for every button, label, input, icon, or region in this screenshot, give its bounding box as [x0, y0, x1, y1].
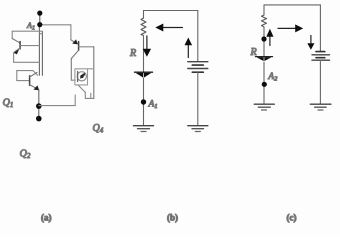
ground (b right) [188, 125, 208, 127]
wire right tall vertical [93, 47, 95, 99]
battery (b) plate short 2 [192, 71, 203, 73]
current arrow right (c top) [278, 27, 298, 29]
wire left drop b [143, 11, 145, 19]
wire bus jog [39, 33, 42, 35]
svg-text:A2: A2 [267, 72, 278, 83]
wire below diode c [263, 62, 265, 104]
svg-text:(a): (a) [41, 213, 52, 223]
wire diagonal to bus [33, 71, 38, 76]
wire left vertical mid [13, 52, 15, 62]
node dot output 2 [36, 116, 42, 122]
current arrow up (c left) head [266, 29, 273, 37]
transistor Q4 envelope circle [77, 72, 86, 81]
wire bottom horizontal [39, 105, 75, 107]
node dot top 2 A1 [37, 22, 42, 27]
current arrow up (c left) stem [269, 37, 271, 46]
current arrow down (c right) stem [310, 36, 312, 45]
diode D (c) bar [256, 56, 273, 58]
wire below battery b [197, 72, 199, 125]
wire top rail to Q3 [40, 24, 71, 26]
battery (b) plate short 1 [192, 64, 203, 66]
current arrow up (b right) stem [187, 45, 189, 58]
ground (b left) [134, 125, 154, 127]
battery (c) plate short 1 [316, 51, 325, 53]
transistor Q1 emitter diagonal [15, 48, 21, 52]
transistor Q1 emitter arrowhead [14, 49, 20, 54]
transistor Q3 collector diagonal [71, 50, 78, 58]
wire bottom riser [74, 95, 76, 106]
wire bus vertical 1 [38, 26, 40, 75]
ground (c right) [310, 103, 331, 105]
current arrow right head (c top) [295, 24, 303, 32]
svg-text:(b): (b) [167, 213, 178, 223]
transistor Q1 base lead [21, 45, 40, 47]
svg-text:(c): (c) [287, 213, 297, 223]
battery (b) plate long 1 [188, 61, 208, 63]
transistor Q3 emitter vertical [70, 25, 72, 40]
wire box top to right vertical [88, 68, 94, 70]
wire emitter hook vertical [84, 92, 86, 98]
wire top rail b [144, 10, 198, 12]
transistor Q2 base lead [17, 80, 30, 82]
transistor Q2 collector diagonal [30, 73, 37, 78]
svg-text:A1: A1 [148, 100, 158, 111]
svg-text:Q4: Q4 [93, 123, 104, 135]
resistor R (b) [141, 18, 146, 36]
svg-text:Q1: Q1 [3, 98, 14, 110]
transistor Q3 emitter arrowhead [72, 39, 78, 44]
transistor Q4 envelope box [75, 69, 88, 85]
wire bus vertical 2 [41, 32, 43, 76]
battery (c) plate long 2 [312, 59, 330, 61]
wire emitter hook tick [90, 93, 92, 98]
wire rail mid [14, 61, 40, 63]
current arrow down (c right) head [307, 43, 314, 50]
wire below battery c [319, 60, 321, 104]
transistor Q1 collector diagonal [12, 39, 20, 43]
ground (c left) [254, 103, 274, 105]
current arrow left (b top) [161, 27, 183, 29]
wire right drop b [197, 11, 199, 62]
current arrow left head (b top) [155, 24, 163, 32]
wire below diode b [143, 78, 145, 125]
transistor Q2 emitter arrowhead [33, 85, 39, 90]
wire left vertical upper [11, 31, 13, 38]
battery (b) plate long 2 [188, 68, 208, 70]
node A1 dot (b) [141, 99, 146, 104]
wire below resistor b [143, 36, 145, 73]
transistor Q1 base bar [19, 42, 21, 49]
node top dot stem wire [39, 13, 41, 25]
transistor Q2 emitter diagonal [30, 85, 38, 89]
diode D (b) center slit [143, 73, 145, 77]
diode D (b) bar [135, 71, 153, 73]
wire emitter hook bottom [85, 97, 94, 99]
transistor Q4 inner arrowhead [82, 73, 86, 76]
transistor Q3 emitter diagonal [71, 40, 76, 43]
wire left top rail [12, 30, 42, 32]
transistor Q2 base bar [29, 76, 31, 86]
transistor Q3 base lead [79, 46, 94, 48]
svg-text:R: R [129, 48, 136, 59]
wire left drop c [263, 5, 265, 15]
svg-text:Q2: Q2 [20, 149, 31, 161]
wire left vertical lower [16, 71, 18, 81]
node dot mid (c) [261, 36, 266, 41]
battery (c) plate long 1 [312, 54, 330, 56]
transistor Q4 base bar [77, 72, 79, 82]
wire right drop c [319, 5, 321, 51]
diode D (c) triangle [257, 57, 272, 61]
current arrow down (b left) stem [146, 36, 148, 50]
node dot output 1 [36, 103, 42, 109]
current arrow up (b right) head [185, 38, 193, 46]
node dot top 1 [37, 11, 42, 16]
node A2 dot (c) [262, 82, 267, 87]
wire collector vertical [70, 59, 72, 81]
current arrow down (b left) head [143, 49, 151, 57]
transistor Q4 emitter diagonal [78, 85, 85, 92]
svg-text:A1: A1 [26, 21, 35, 32]
wire top rail c [264, 4, 320, 6]
diode D (b) triangle [136, 73, 152, 78]
wire emitter down to node [38, 90, 40, 119]
wire below resistor c [263, 27, 265, 57]
transistor Q4 inner arrow [80, 75, 83, 78]
battery (c) plate short 2 [316, 57, 325, 59]
resistor R (c) [262, 15, 267, 27]
wire into Q4 box [71, 79, 75, 81]
diode D (c) center slit [263, 58, 265, 61]
wire rail lower [17, 70, 33, 72]
transistor Q3 base bar [78, 42, 80, 51]
